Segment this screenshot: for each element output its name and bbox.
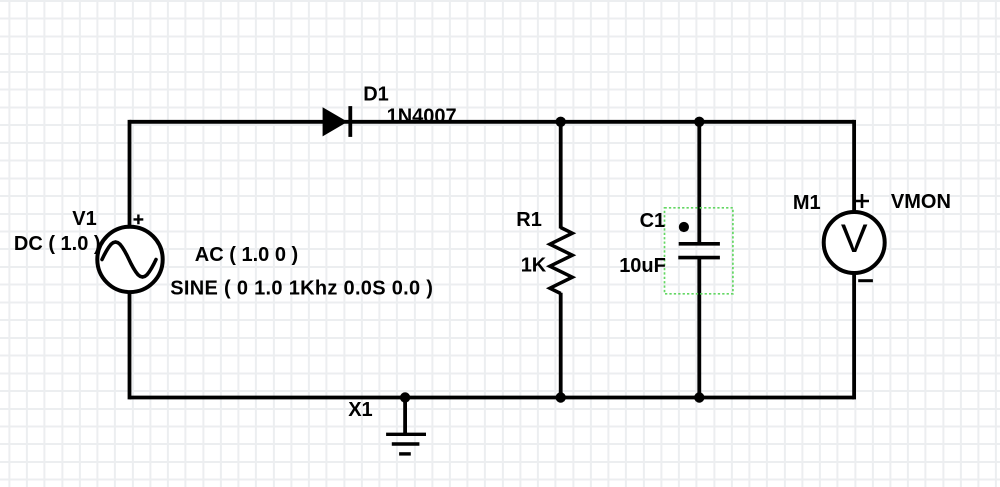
diode D1 cathode bar [348,106,352,137]
ground symbol [386,434,426,454]
wire bottom rail [130,396,855,400]
wire right rail lower [852,273,856,399]
svg-text:D1: D1 [363,83,389,105]
wire left rail upper [128,120,132,227]
wire R1 branch lower [559,293,563,398]
svg-text:SINE ( 0 1.0 1Khz 0.0S 0.0 ): SINE ( 0 1.0 1Khz 0.0S 0.0 ) [170,278,433,300]
wire C1 branch upper [697,122,701,243]
svg-text:1K: 1K [521,255,547,277]
capacitor C1 selection box [665,208,733,294]
svg-text:R1: R1 [516,209,542,231]
svg-text:DC ( 1.0 ): DC ( 1.0 ) [14,233,101,255]
wire C1 branch lower [697,258,701,398]
M1 plus sign [855,194,869,208]
wire left rail lower [128,292,132,399]
svg-text:C1: C1 [640,210,666,232]
capacitor C1 top plate [679,242,720,246]
svg-text:1N4007: 1N4007 [387,105,457,127]
wire right rail upper [852,120,856,213]
svg-text:V: V [841,217,868,261]
voltmeter M1 circle [824,212,885,273]
wire top rail [130,120,855,124]
svg-text:AC ( 1.0 0 ): AC ( 1.0 0 ) [195,244,298,266]
svg-text:VMON: VMON [891,191,951,213]
voltage source V1 sine wave [102,242,156,277]
M1 minus sign [858,279,873,282]
node junction ground [400,392,410,402]
capacitor C1 bottom plate [678,256,720,260]
svg-text:X1: X1 [348,399,372,421]
voltage source V1 circle [97,227,162,292]
node junction R1 bottom [556,392,566,402]
capacitor C1 polarity dot [679,222,689,232]
wire R1 branch upper [559,122,563,229]
node junction R1 top [556,117,566,127]
V1 plus sign [134,215,144,225]
svg-text:10uF: 10uF [619,255,666,277]
node junction C1 top [694,117,704,127]
node junction C1 bottom [694,392,704,402]
svg-text:M1: M1 [793,192,821,214]
resistor R1 zigzag [550,228,572,294]
svg-text:V1: V1 [72,208,96,230]
diode D1 triangle [323,107,348,136]
wire ground stub [403,398,407,435]
